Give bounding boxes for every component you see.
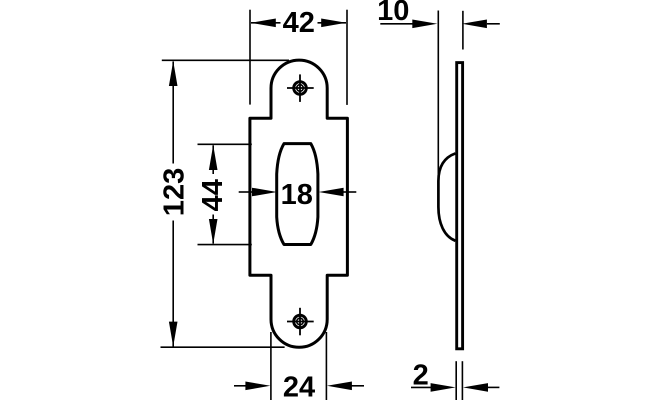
bottom screw hole	[287, 308, 314, 336]
dimension 42: right extension line	[346, 10, 348, 105]
dimension 18: right arrow	[319, 188, 357, 197]
side view plate profile	[457, 63, 463, 349]
dimension 10: right extension line	[462, 11, 464, 50]
dimension 24: left arrow	[234, 382, 270, 391]
latch cutout in plate	[277, 144, 318, 245]
dimension 2: left extension line	[455, 361, 457, 400]
svg-text:123: 123	[158, 168, 190, 216]
dimension 2: left arrow with leader	[411, 383, 456, 392]
dimension 10: left arrow with leader	[380, 20, 437, 29]
dimension 24: right extension line	[325, 332, 327, 400]
top screw hole	[287, 74, 314, 102]
svg-text:2: 2	[413, 360, 429, 392]
dimension 10: left extension line	[437, 11, 439, 177]
dimension 42: dimension line with arrows	[251, 19, 346, 28]
strike plate front view outline	[250, 60, 348, 347]
dimension 44: top extension line	[198, 143, 252, 145]
dimension 10: right arrow with leader	[462, 20, 500, 29]
dimension 44: dimension line with arrows	[209, 145, 218, 244]
dimension 123: dimension line with arrows	[169, 61, 178, 347]
dimension 2: right extension line	[461, 361, 463, 400]
dimension 2: right arrow with leader	[463, 383, 499, 392]
dimension 42: left extension line	[249, 10, 251, 105]
dimension 24: right arrow	[327, 382, 364, 391]
dimension 123: top extension line	[162, 59, 289, 61]
side view dimple bump	[438, 153, 455, 240]
dimension 24: left extension line	[270, 332, 272, 400]
svg-text:44: 44	[197, 179, 229, 211]
svg-text:18: 18	[281, 179, 313, 211]
dimension 18: left arrow	[239, 188, 277, 197]
svg-text:24: 24	[283, 372, 315, 400]
dimension 123: bottom extension line	[161, 346, 285, 348]
svg-text:42: 42	[283, 7, 315, 39]
dimension 44: bottom extension line	[198, 244, 252, 246]
svg-text:10: 10	[377, 0, 409, 27]
